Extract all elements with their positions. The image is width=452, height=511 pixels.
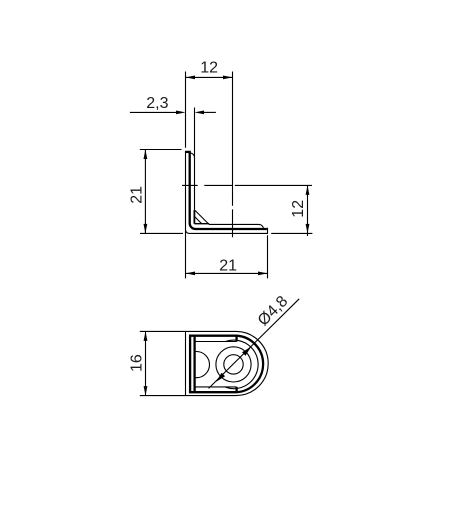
dimension 12 top: line: [186, 76, 233, 78]
section view: gusset diagonal lower: [194, 216, 201, 223]
dimension 2,3: left arrow: [176, 111, 186, 115]
dimension 12 right: top arrow: [306, 185, 310, 195]
plan view: thick contour: [190, 336, 263, 393]
dimension 12 right: bottom arrow: [306, 224, 310, 234]
section view: outer face thin outline with bottom corner, bottom face, tip edge: [186, 151, 268, 233]
dimension 21 bottom: left arrow: [186, 272, 196, 276]
plan view: flange end stub top: [235, 336, 237, 342]
svg-text:21: 21: [128, 186, 145, 204]
plan view: flange thin line top: [195, 341, 237, 343]
plan view: flange end stub bottom: [235, 387, 237, 392]
extension line: outer face above section: [185, 72, 187, 148]
dimension 2,3: right line: [204, 111, 216, 113]
section view: angle bracket profile thick midline: [185, 152, 267, 229]
plan view: gusset dome arc: [195, 352, 210, 378]
svg-text:12: 12: [290, 200, 307, 218]
svg-text:2,3: 2,3: [146, 95, 168, 112]
dimension 21 left: bottom arrow: [144, 224, 148, 234]
svg-text:16: 16: [128, 354, 145, 372]
dimension 12 right: extension line bottom: [271, 232, 312, 234]
plan view: hole circle d4.8: [224, 355, 243, 374]
plan view: outer thin contour with 16 extension lines: [140, 331, 268, 395]
dimension 21 bottom: right extension line: [267, 235, 269, 278]
leader line for hole diameter: [209, 299, 300, 389]
plan view: outer thin left edge: [185, 331, 187, 395]
dimension 12 top: right arrow: [223, 76, 233, 80]
section view: gusset diagonal upper: [195, 210, 210, 225]
plan view: leg inner face thick line: [193, 336, 195, 393]
plan view: counterbore outer circle: [225, 340, 258, 389]
dimension 16: top arrow: [144, 331, 148, 341]
dimension 12 top: left arrow: [186, 76, 196, 80]
dimension 2,3: right arrow: [195, 111, 205, 115]
dimension 16: bottom arrow: [144, 386, 148, 396]
section view: inner face shoulder arc and inner face line: [190, 153, 194, 210]
leader arrow lower: [216, 373, 225, 382]
plan view: counterbore middle circle: [216, 347, 251, 382]
centerline: horizontal hole axis: [182, 184, 312, 186]
dimension 21 bottom: left extension line: [185, 230, 187, 279]
dimension 2,3: left line: [130, 111, 176, 113]
section view: gusset base edge: [194, 223, 209, 225]
svg-text:12: 12: [200, 60, 218, 77]
dimension 21 bottom: dimension line: [186, 272, 268, 274]
dimension 21 left: extension line top: [140, 149, 182, 151]
svg-text:21: 21: [219, 258, 237, 275]
section view: top face line of bottom leg with rounded tip: [209, 224, 264, 229]
dimension 21 left: extension line bottom: [140, 232, 183, 234]
plan view: flange thin line bottom: [195, 386, 237, 388]
dimension 21 bottom: right arrow: [258, 272, 268, 276]
centerline: vertical hole axis: [232, 72, 234, 238]
leader arrow upper: [242, 347, 251, 356]
extension line: inner face above section: [194, 108, 196, 158]
dimension 12 right: dimension line: [307, 185, 309, 236]
section view: gusset vertical edge: [193, 210, 195, 224]
dimension 21 left: top arrow: [144, 150, 148, 160]
dimension 16: dimension line: [145, 331, 147, 395]
dimension 21 left: dimension line: [144, 150, 146, 234]
